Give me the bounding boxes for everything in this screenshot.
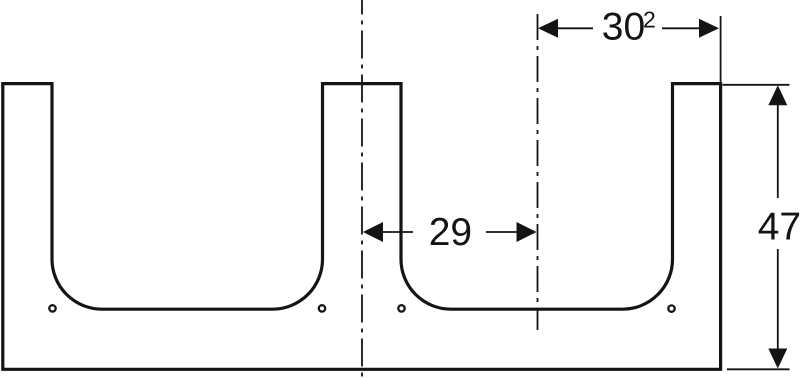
centerline: middle wall axis (left dash-dot line) — [361, 0, 363, 378]
dimension 29 : value label — [429, 211, 472, 254]
dimension 47 : bottom arrowhead — [768, 349, 787, 369]
hole circle bottom-right of left channel — [319, 305, 325, 311]
dimension 29 : left arrowhead — [363, 222, 383, 242]
dimension 47 : dimension line upper segment — [777, 103, 779, 198]
dimension 29 : right arrowhead — [517, 222, 537, 242]
dimension 47 : top extension line — [723, 84, 790, 86]
dimension 30² : extension line at right edge — [720, 16, 722, 84]
svg-text:2: 2 — [643, 7, 656, 33]
dimension 47 : top arrowhead — [768, 85, 787, 105]
profile outline (double U-channel cross-section) — [3, 84, 721, 370]
svg-text:29: 29 — [429, 211, 472, 254]
dimension 29 : dimension line left segment — [381, 231, 413, 233]
svg-text:30: 30 — [602, 6, 645, 49]
dimension 47 : dimension line lower segment — [777, 249, 779, 349]
dimension 47 : value label — [758, 206, 800, 249]
dimension 30² : right arrowhead — [699, 19, 719, 38]
hole circle bottom-left of left channel — [49, 305, 55, 311]
dimension 30² : value label — [602, 6, 656, 49]
dimension 30² : left arrowhead — [538, 19, 558, 38]
centerline: right channel axis (right dash-dot line) — [537, 14, 539, 330]
hole circle bottom-right of right channel — [668, 305, 674, 311]
dimension 47 : bottom extension line — [727, 368, 790, 370]
svg-text:47: 47 — [758, 206, 800, 249]
dimension 29 : dimension line right segment — [486, 231, 518, 233]
dimension 30² : dimension line right segment — [662, 27, 701, 29]
dimension 30² : dimension line left segment — [556, 27, 593, 29]
hole circle bottom-left of right channel — [398, 305, 404, 311]
